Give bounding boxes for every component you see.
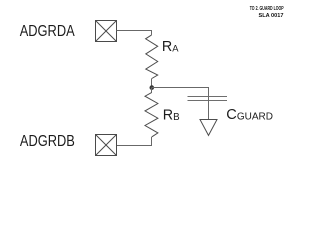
resistor RA <box>146 35 158 79</box>
ground <box>200 120 217 136</box>
wire RB to pad B <box>117 137 152 146</box>
wire pad A to RA <box>117 31 152 35</box>
svg-text:SLA 0017: SLA 0017 <box>259 13 284 19</box>
node junction <box>150 85 155 90</box>
svg-text:RA: RA <box>162 39 179 55</box>
resistor RB <box>145 92 158 136</box>
svg-text:RB: RB <box>163 108 180 124</box>
wire node to RB <box>151 88 153 93</box>
capacitor CGUARD bottom plate <box>188 100 228 102</box>
capacitor CGUARD top plate <box>188 96 228 98</box>
pad ADGRDB <box>96 135 117 156</box>
wire RA to node <box>151 79 153 88</box>
svg-text:TO 2. GUARD LOOP: TO 2. GUARD LOOP <box>250 6 284 12</box>
svg-text:CGUARD: CGUARD <box>226 107 273 123</box>
pad ADGRDA <box>96 21 117 42</box>
svg-text:ADGRDB: ADGRDB <box>20 133 75 150</box>
svg-text:ADGRDA: ADGRDA <box>20 23 76 40</box>
capacitor lead through plates <box>208 97 210 120</box>
wire node to capacitor <box>152 88 209 97</box>
